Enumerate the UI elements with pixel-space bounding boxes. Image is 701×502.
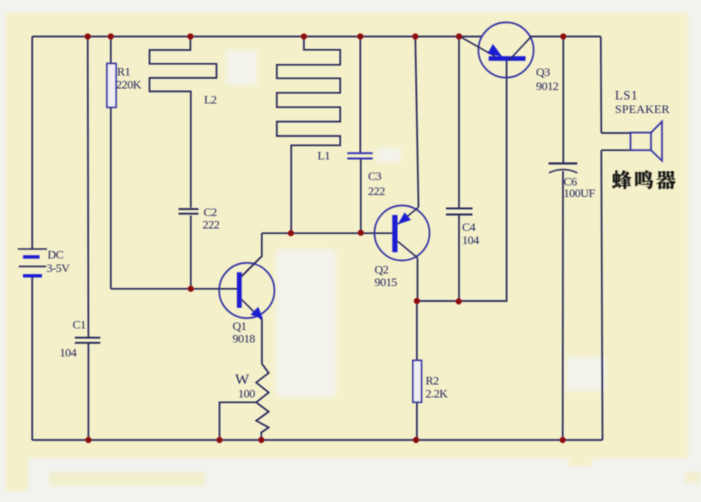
wire: R2 bottom lead	[416, 402, 418, 440]
label L2	[204, 93, 217, 107]
wire: Q1 emitter drop to potentiometer	[261, 320, 263, 364]
wire: +V top rail (right of Q3)	[531, 36, 601, 38]
label buzzer (Chinese)	[612, 170, 675, 189]
svg-text:104: 104	[462, 233, 479, 247]
wire: Q1 base wire	[111, 288, 237, 290]
label LS1 SPEAKER	[615, 89, 670, 117]
svg-text:LS1: LS1	[615, 89, 638, 103]
capacitor C2 plates	[179, 209, 199, 214]
wire: C2 bottom lead	[190, 216, 192, 289]
label C4 104	[462, 220, 479, 247]
svg-text:L1: L1	[318, 149, 331, 163]
svg-text:Q3: Q3	[536, 65, 550, 79]
label C3 222	[368, 169, 385, 198]
potentiometer W zigzag element	[256, 364, 269, 441]
resistor R1 body	[107, 64, 116, 108]
wire: C6 top lead	[562, 37, 564, 164]
svg-text:C3: C3	[368, 169, 382, 183]
svg-text:SPEAKER: SPEAKER	[615, 102, 670, 116]
svg-text:C1: C1	[73, 318, 87, 332]
svg-text:9012: 9012	[536, 79, 559, 93]
svg-text:DC: DC	[48, 248, 64, 262]
label DC 3-5V	[47, 248, 71, 276]
transistor Q2 (9015 PNP)	[375, 206, 430, 261]
label L1	[318, 149, 331, 163]
battery DC 3-5V	[18, 249, 47, 276]
svg-text:104: 104	[60, 346, 77, 360]
wire: C4 top lead	[458, 37, 460, 209]
svg-text:100UF: 100UF	[564, 186, 596, 200]
label Q3 9012	[536, 65, 559, 93]
wire: battery - to bottom rail	[31, 276, 33, 440]
label Q2 9015	[375, 263, 398, 290]
wire: speaker upper stub	[601, 132, 630, 134]
svg-text:9015: 9015	[375, 275, 398, 289]
junction dot Q1 base / C2	[188, 286, 194, 292]
wire: C3 top lead	[359, 37, 361, 154]
svg-text:R2: R2	[426, 374, 440, 388]
wire: R1 bottom lead down to Q1 base node	[110, 107, 112, 288]
wire: right frame top to speaker	[600, 37, 603, 134]
wire: node row to Q3 base	[417, 61, 507, 301]
transistor Q1 (9018 NPN)	[219, 256, 274, 320]
wire: W wiper tap	[220, 402, 257, 440]
wire: ground bottom rail	[32, 439, 602, 441]
svg-text:222: 222	[368, 184, 385, 198]
wire: C1 branch lower	[87, 344, 89, 441]
wire: R1 top lead	[110, 37, 112, 64]
label Q1 9018	[233, 319, 256, 346]
capacitor C6 (electrolytic)	[548, 163, 577, 172]
inductor L1 (meander)	[277, 37, 340, 234]
svg-text:2.2K: 2.2K	[426, 387, 449, 401]
svg-text:9018: 9018	[233, 332, 256, 346]
resistor R2 body	[413, 360, 422, 402]
wire: C4 bottom lead	[458, 215, 460, 302]
inductor L2 (meander)	[150, 37, 217, 208]
wire: Q2 base wire	[262, 232, 393, 234]
capacitor C3 plates	[347, 153, 372, 158]
svg-text:C4: C4	[462, 220, 476, 234]
svg-text:222: 222	[203, 218, 220, 232]
svg-text:220K: 220K	[116, 78, 142, 92]
wire: +V top rail (left of Q3)	[32, 36, 482, 38]
capacitor C4 plates	[446, 208, 473, 214]
transistor Q3 (9012 PNP)	[461, 22, 534, 77]
wire: C3 bottom lead	[360, 159, 362, 233]
svg-text:3-5V: 3-5V	[47, 261, 71, 275]
wire: left frame to battery +	[31, 37, 33, 250]
wire: R2 top lead	[416, 301, 418, 360]
label C2 222	[203, 205, 220, 232]
wire: C1 branch upper	[87, 37, 90, 338]
label R1 220K	[116, 65, 142, 92]
wire: right frame speaker to bottom rail	[601, 150, 602, 440]
wire: C6 bottom lead	[562, 171, 564, 440]
wire: Q1 collector riser	[242, 233, 262, 276]
junction dots bottom rail	[85, 437, 566, 443]
speaker LS1 symbol	[631, 122, 663, 161]
junction dots top rail	[85, 33, 567, 39]
label C1 104	[60, 318, 87, 360]
svg-text:L2: L2	[204, 93, 217, 107]
svg-text:R1: R1	[117, 65, 131, 79]
wire: speaker lower stub	[601, 149, 630, 151]
junction dots Q3 base row	[414, 298, 462, 305]
label C6 100UF	[564, 175, 596, 201]
wire: Q2 collector drop	[417, 258, 419, 301]
capacitor C1 plates	[75, 338, 101, 343]
junction dots Q2 base wire	[288, 230, 364, 237]
label R2 2.2K	[426, 374, 449, 401]
wire: Q2 emitter riser to +V	[415, 37, 418, 208]
label W 100	[235, 372, 255, 401]
background smudge patches	[226, 50, 605, 398]
svg-text:100: 100	[238, 387, 255, 401]
